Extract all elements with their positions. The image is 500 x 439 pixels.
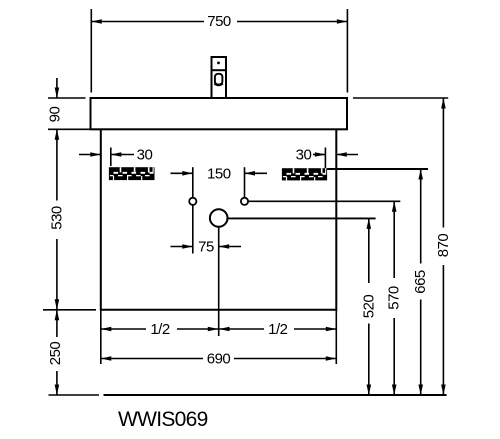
dim 530: [48, 129, 65, 309]
svg-text:90: 90: [46, 107, 63, 123]
dim 150: [171, 166, 268, 183]
dim 90: [46, 78, 100, 129]
left slot: [109, 167, 155, 180]
dim 690: [101, 351, 336, 368]
svg-text:75: 75: [198, 239, 214, 256]
svg-text:150: 150: [207, 166, 231, 183]
faucet spout base: [215, 83, 223, 85]
svg-text:530: 530: [48, 206, 65, 230]
hole R centerline: [244, 167, 246, 197]
dim 250: [43, 310, 96, 395]
faucet divider: [212, 69, 227, 71]
svg-text:750: 750: [207, 13, 231, 30]
floor line: [49, 394, 447, 396]
dim 1/2 right: [219, 310, 336, 364]
dim 870: [353, 98, 452, 395]
hole L centerline: [192, 167, 194, 253]
dim 1/2 left: [101, 310, 219, 364]
svg-text:690: 690: [207, 351, 231, 368]
faucet dot: [217, 62, 220, 65]
svg-text:1/2: 1/2: [150, 321, 170, 338]
basin rim: [91, 98, 348, 129]
svg-text:570: 570: [386, 286, 403, 310]
hole R: [241, 198, 248, 205]
hole L: [189, 198, 196, 205]
faucet spout: [215, 74, 223, 85]
drain circle: [210, 209, 228, 227]
dim 570: [248, 201, 403, 395]
right slot: [282, 168, 327, 180]
svg-text:30: 30: [296, 147, 312, 164]
dim 30 right: [296, 147, 358, 169]
dim 520: [228, 218, 378, 395]
dim 30 left: [79, 146, 152, 166]
svg-text:WWIS069: WWIS069: [118, 408, 208, 431]
basin body: [101, 129, 336, 309]
drain centerline: [218, 227, 220, 336]
svg-text:30: 30: [137, 146, 153, 163]
svg-text:250: 250: [47, 342, 64, 366]
dim 665: [327, 169, 429, 395]
svg-text:1/2: 1/2: [268, 321, 288, 338]
dim 75: [171, 239, 242, 256]
svg-text:870: 870: [435, 234, 452, 258]
svg-text:665: 665: [412, 270, 429, 294]
faucet body: [212, 57, 227, 98]
dim 750: [91, 9, 347, 93]
svg-text:520: 520: [360, 295, 377, 319]
